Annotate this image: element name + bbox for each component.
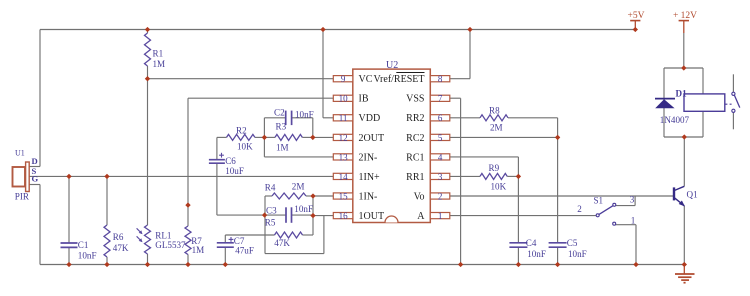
svg-text:14: 14 <box>339 172 349 182</box>
svg-text:Vo: Vo <box>414 191 425 202</box>
svg-text:GL5537: GL5537 <box>155 240 186 250</box>
svg-text:1M: 1M <box>276 143 289 153</box>
svg-text:G: G <box>32 173 39 183</box>
svg-text:R1: R1 <box>153 49 164 59</box>
svg-text:PIR: PIR <box>15 192 30 202</box>
svg-text:VDD: VDD <box>359 113 381 124</box>
svg-text:9: 9 <box>341 74 346 84</box>
svg-text:RL1: RL1 <box>155 230 171 240</box>
svg-text:C2: C2 <box>274 107 285 117</box>
svg-text:2: 2 <box>438 191 443 201</box>
svg-text:11: 11 <box>339 113 348 123</box>
svg-text:10nF: 10nF <box>527 249 546 259</box>
svg-text:10nF: 10nF <box>78 250 97 260</box>
svg-text:U1: U1 <box>15 148 25 157</box>
svg-text:Vref/RESET: Vref/RESET <box>373 74 424 85</box>
svg-text:+5V: +5V <box>628 11 645 21</box>
svg-text:47K: 47K <box>274 238 290 248</box>
svg-text:A: A <box>417 211 425 222</box>
svg-text:C6: C6 <box>225 156 236 166</box>
svg-text:1N4007: 1N4007 <box>660 115 690 125</box>
svg-text:1M: 1M <box>192 245 205 255</box>
svg-text:10nF: 10nF <box>294 204 313 214</box>
svg-text:C3: C3 <box>266 206 277 216</box>
svg-text:R4: R4 <box>265 183 276 193</box>
svg-text:1: 1 <box>631 215 636 225</box>
svg-text:R6: R6 <box>113 232 124 242</box>
svg-text:16: 16 <box>339 211 349 221</box>
svg-text:R2: R2 <box>236 125 247 135</box>
svg-text:RC1: RC1 <box>406 152 424 163</box>
svg-text:RC2: RC2 <box>406 133 424 144</box>
svg-text:R9: R9 <box>489 163 500 173</box>
svg-text:47uF: 47uF <box>235 245 254 255</box>
svg-text:R8: R8 <box>489 105 500 115</box>
svg-text:S1: S1 <box>594 195 604 205</box>
svg-text:1IN+: 1IN+ <box>359 172 381 183</box>
svg-text:15: 15 <box>339 191 349 201</box>
svg-text:2M: 2M <box>292 181 305 191</box>
svg-text:U2: U2 <box>386 60 398 71</box>
svg-text:RR2: RR2 <box>406 113 424 124</box>
svg-text:10uF: 10uF <box>225 166 244 176</box>
svg-text:C5: C5 <box>567 238 578 248</box>
svg-text:1OUT: 1OUT <box>359 211 385 222</box>
svg-text:10: 10 <box>339 94 349 104</box>
svg-text:1IN-: 1IN- <box>359 191 378 202</box>
svg-text:D: D <box>32 156 38 166</box>
svg-text:13: 13 <box>339 152 349 162</box>
svg-text:Q1: Q1 <box>687 190 698 200</box>
svg-text:7: 7 <box>438 94 443 104</box>
svg-text:4: 4 <box>438 152 443 162</box>
svg-text:VSS: VSS <box>406 94 424 105</box>
svg-text:3: 3 <box>630 194 635 204</box>
svg-text:3: 3 <box>438 172 443 182</box>
svg-text:RR1: RR1 <box>406 172 424 183</box>
svg-text:IB: IB <box>359 94 369 105</box>
svg-text:C1: C1 <box>78 240 89 250</box>
svg-text:VC: VC <box>359 74 373 85</box>
svg-text:2M: 2M <box>490 123 503 133</box>
svg-text:10nF: 10nF <box>568 249 587 259</box>
svg-text:10K: 10K <box>237 142 253 152</box>
svg-text:R5: R5 <box>265 218 276 228</box>
svg-text:10nF: 10nF <box>295 110 314 120</box>
svg-text:D1: D1 <box>676 88 688 98</box>
svg-text:12: 12 <box>339 133 348 143</box>
svg-text:2: 2 <box>577 204 582 214</box>
svg-text:C4: C4 <box>526 238 537 248</box>
svg-text:1: 1 <box>438 211 443 221</box>
svg-text:2IN-: 2IN- <box>359 152 378 163</box>
svg-text:47K: 47K <box>113 243 129 253</box>
svg-text:8: 8 <box>438 74 443 84</box>
svg-text:R3: R3 <box>276 122 287 132</box>
svg-text:+ 12V: + 12V <box>673 11 697 21</box>
svg-text:10K: 10K <box>491 181 507 191</box>
svg-text:1M: 1M <box>153 59 166 69</box>
svg-text:6: 6 <box>438 113 443 123</box>
svg-text:2OUT: 2OUT <box>359 133 385 144</box>
svg-text:5: 5 <box>438 133 443 143</box>
